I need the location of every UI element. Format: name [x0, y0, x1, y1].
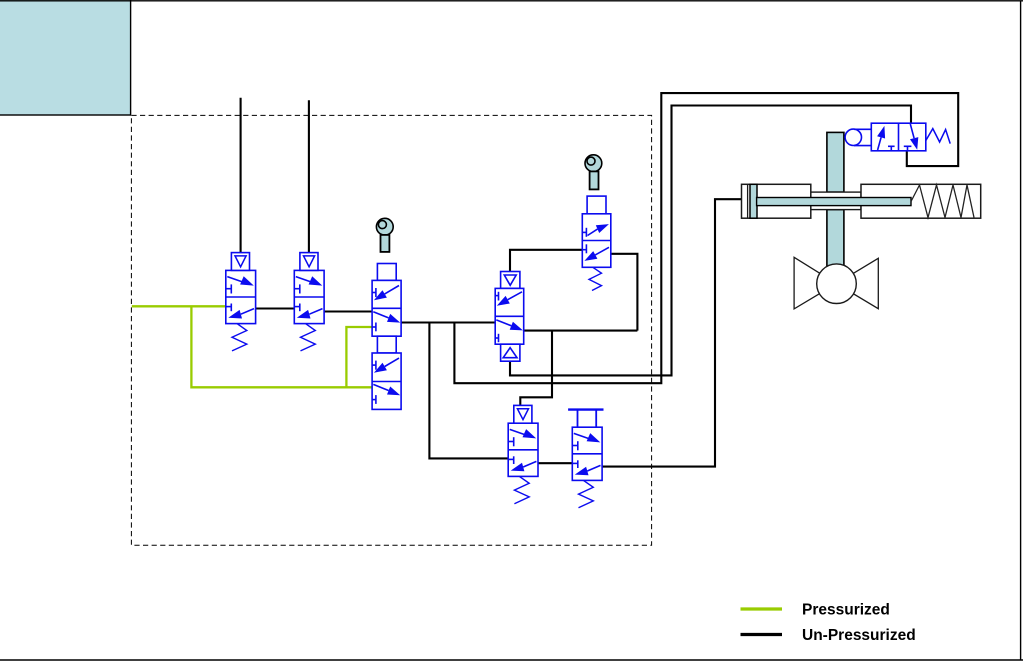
cylinder cap inner line	[747, 184, 749, 218]
wire: junction to valve BL left port	[429, 323, 508, 459]
cylinder piston	[750, 184, 757, 218]
valve V3 lower body	[372, 353, 401, 409]
cylinder barrel	[742, 184, 811, 218]
valve M body	[495, 288, 524, 344]
legend black line	[741, 633, 783, 636]
dashed enclosure border	[131, 115, 651, 545]
page border frame	[0, 0, 1023, 2]
wire: input signal to valve V1 pilot	[240, 98, 242, 253]
valve BR plunger actuator	[568, 410, 603, 428]
ball valve left triangle	[794, 257, 836, 309]
green wire: supply branch up to valve V3 upper body	[346, 327, 372, 387]
valve V3 palm button	[376, 218, 393, 252]
valve TR return spring	[926, 129, 950, 144]
valve V3 middle connector box	[377, 336, 396, 353]
valve TM return spring	[589, 267, 602, 290]
actuator stem lower segment	[827, 210, 844, 268]
wire: valve BL out to valve BR in	[538, 462, 572, 464]
actuator stem upper segment	[827, 132, 844, 192]
title block (teal corner box)	[0, 0, 131, 115]
wire: valve TM right port down	[611, 254, 638, 331]
wire: junction to valve BL pilot	[520, 331, 552, 406]
valve M bottom box with up triangle	[501, 344, 520, 361]
green wire: supply branch to valve V3 lower body	[191, 306, 372, 387]
valve V2 3/2 pilot valve	[294, 253, 324, 351]
wire: valve V1 out to valve V2 in	[256, 307, 295, 309]
cylinder rod guide block	[811, 192, 861, 210]
cylinder spring housing	[861, 184, 981, 218]
wire: valve V2 out to valve V3 in	[324, 310, 372, 312]
svg-text:Pressurized: Pressurized	[802, 602, 890, 619]
legend green line	[741, 607, 783, 610]
valve V3 upper connector box	[377, 264, 396, 281]
ball valve body circle	[817, 264, 857, 304]
cylinder return spring	[911, 185, 974, 218]
ball valve right triangle	[836, 258, 878, 308]
valve TM body	[582, 214, 611, 267]
svg-text:Un-Pressurized: Un-Pressurized	[802, 627, 916, 644]
valve TR roller actuator	[845, 129, 871, 146]
valve V3 upper body	[372, 280, 401, 336]
wire: junction loop to valve TR bottom port	[454, 93, 958, 383]
wire: valve BR out to cylinder cap port	[601, 199, 742, 466]
cylinder piston rod	[757, 198, 911, 206]
wire: valve M right port	[524, 330, 638, 332]
valve M pilot box with down triangle	[501, 272, 520, 289]
valve TM connector box	[587, 196, 606, 214]
valve BR 3/2 plunger valve	[572, 427, 602, 508]
valve TR body	[871, 123, 926, 151]
wire: valve M bottom port to valve TR top port	[510, 106, 911, 376]
wire: valve M pilot to valve TM left port	[510, 250, 582, 272]
valve V1 3/2 pilot valve	[226, 253, 256, 351]
valve BL 3/2 pilot valve	[508, 405, 538, 503]
green wire: supply to valve V1 left port	[132, 305, 226, 307]
valve TM palm button	[585, 155, 602, 190]
wire: valve V3 out to valve M in	[401, 321, 495, 323]
wire: input signal to valve V2 pilot	[308, 100, 310, 252]
